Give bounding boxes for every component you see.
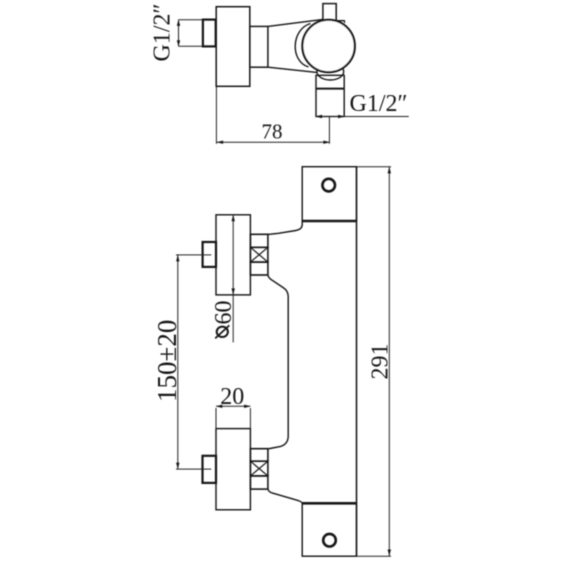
inlet diameter dimension line [179, 20, 203, 47]
top mounting plate [302, 167, 356, 221]
svg-text:G1/2″: G1/2″ [150, 4, 176, 62]
150 dimension arrows [176, 255, 179, 469]
phi60 arrows [232, 215, 235, 295]
outlet divider [316, 88, 344, 90]
20 dimension extension lines [216, 408, 250, 429]
svg-text:78: 78 [262, 120, 283, 144]
body bar right edge [356, 167, 358, 557]
outlet width arrows [316, 115, 345, 118]
svg-text:291: 291 [368, 344, 394, 380]
top button [323, 4, 336, 21]
diameter symbol of phi60 [215, 325, 229, 338]
top button far edge notch [336, 21, 345, 23]
top screw hole [322, 179, 335, 192]
20 dimension arrows [216, 405, 251, 408]
lower inlet fitting [203, 456, 217, 483]
291 dimension arrows [388, 167, 391, 556]
lower handle knob [216, 429, 250, 510]
150 extension/center lines [176, 255, 211, 469]
body bar left profile lower S-curve [268, 489, 302, 503]
svg-text:150±20: 150±20 [152, 320, 182, 402]
wall body block (side view) [216, 7, 250, 87]
291 dimension line [388, 167, 390, 557]
svg-text:G1/2″: G1/2″ [350, 91, 408, 117]
upper valve connector column [250, 234, 268, 275]
bottom plate thick top edge [302, 502, 356, 505]
bottom mounting plate [302, 503, 356, 556]
handle ball [302, 20, 354, 72]
150+-20 dimension line [177, 255, 179, 469]
outlet width leader line [316, 116, 409, 118]
20 dimension line [216, 405, 250, 407]
body bar left profile between valves [268, 275, 288, 449]
outlet collar ellipse [317, 63, 344, 80]
lower valve X cross [250, 461, 268, 476]
78 dimension line [216, 141, 329, 143]
inlet dimension arrows [177, 19, 180, 46]
upper valve X cross [250, 247, 268, 262]
cone to handle [268, 19, 323, 72]
bottom screw hole [323, 534, 336, 547]
phi60 dimension line [232, 215, 234, 343]
upper handle knob [216, 215, 250, 295]
lower valve connector column [250, 449, 268, 489]
neck (side view) [250, 26, 268, 67]
291 extension lines [357, 167, 392, 557]
svg-text:20: 20 [220, 384, 244, 410]
outlet pipe (side view) [316, 75, 344, 116]
svg-text:60: 60 [211, 301, 237, 325]
78 extension lines [216, 87, 329, 144]
top plate thick bottom edge [302, 220, 356, 223]
upper inlet fitting [203, 242, 216, 267]
inlet fitting (side view) [203, 20, 216, 47]
body bar left profile upper S-curve [268, 221, 302, 234]
78 dimension arrows [217, 141, 330, 144]
